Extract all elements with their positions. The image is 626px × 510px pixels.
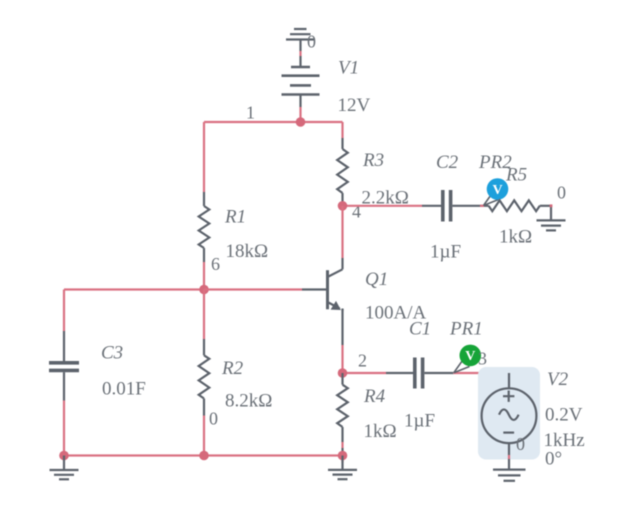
svg-text:1µF: 1µF	[430, 242, 461, 263]
connection tick (R4 ground stub)	[341, 459, 343, 463]
junction node 4	[338, 201, 348, 211]
junction bottom (R2)	[199, 451, 209, 461]
wire node 1 down to R1	[203, 122, 205, 192]
resistor R5	[489, 200, 551, 211]
wire C2 to R5	[452, 205, 488, 207]
svg-text:12V: 12V	[338, 95, 371, 116]
wire node 4 to C2	[343, 205, 442, 207]
svg-text:V2: V2	[547, 369, 569, 390]
wire bottom rail	[64, 454, 343, 456]
svg-text:3: 3	[478, 349, 487, 369]
svg-text:1kΩ: 1kΩ	[364, 421, 397, 442]
wire node 6 to R2	[203, 290, 205, 340]
wire node 4 to Q1 collector	[341, 206, 343, 269]
svg-text:0: 0	[557, 183, 566, 203]
wire ground to battery	[299, 51, 301, 67]
svg-text:PR1: PR1	[449, 319, 483, 340]
ground (bottom center)	[328, 456, 357, 480]
svg-text:R4: R4	[363, 386, 386, 407]
svg-text:6: 6	[211, 254, 220, 274]
svg-text:1µF: 1µF	[404, 411, 435, 432]
V2 selection highlight	[478, 367, 540, 460]
transistor Q1	[328, 269, 343, 311]
wire node 6 left	[64, 288, 204, 290]
wire V2 to ground	[508, 455, 510, 470]
capacitor C3	[49, 331, 79, 401]
resistor R3	[337, 138, 348, 206]
svg-text:C2: C2	[436, 152, 459, 173]
wire node 6 to Q1 base	[204, 288, 326, 290]
svg-text:0: 0	[209, 409, 218, 429]
wire top rail node 1	[204, 121, 343, 123]
wire C3 to bottom rail	[63, 401, 65, 456]
ground (right, net 0)	[537, 220, 566, 230]
svg-text:V: V	[465, 349, 475, 364]
svg-text:R1: R1	[224, 207, 246, 228]
svg-text:C3: C3	[101, 343, 123, 364]
wire C1 to V2	[424, 373, 509, 388]
probe PR2	[484, 178, 509, 205]
wire battery to node 1	[299, 95, 301, 123]
svg-text:R2: R2	[221, 358, 244, 379]
svg-text:0: 0	[516, 434, 525, 454]
svg-text:0: 0	[307, 32, 316, 52]
svg-text:V1: V1	[338, 58, 359, 79]
ground (top, net 0)	[286, 29, 315, 51]
svg-text:8.2kΩ: 8.2kΩ	[225, 391, 272, 412]
svg-text:Q1: Q1	[365, 269, 388, 290]
resistor R4	[337, 373, 348, 442]
svg-text:C1: C1	[409, 319, 431, 340]
wire R4 to bottom rail	[341, 442, 343, 456]
wire Q1 emitter to node 2	[341, 309, 343, 373]
junction bottom left (C3)	[59, 451, 69, 461]
wire node 1 to R3	[341, 122, 343, 138]
svg-text:0°: 0°	[545, 449, 562, 470]
svg-text:4: 4	[352, 202, 361, 222]
wire R1 to node 6	[203, 262, 205, 290]
junction node 6	[199, 285, 209, 295]
svg-text:2: 2	[358, 351, 367, 371]
svg-text:0.2V: 0.2V	[545, 405, 583, 426]
svg-text:V: V	[492, 183, 502, 198]
junction node 1	[296, 117, 306, 127]
svg-text:R3: R3	[362, 150, 384, 171]
svg-text:18kΩ: 18kΩ	[226, 241, 269, 262]
svg-text:R5: R5	[505, 165, 527, 186]
probe PR1	[454, 345, 481, 373]
ground (bottom left)	[50, 456, 79, 480]
wire R2 to bottom rail	[203, 416, 205, 456]
ground (below V2)	[493, 470, 526, 481]
resistor R2	[199, 339, 210, 416]
capacitor C2	[443, 190, 451, 222]
svg-text:1: 1	[246, 103, 255, 123]
svg-text:0.01F: 0.01F	[102, 379, 146, 400]
capacitor C1	[415, 358, 423, 389]
wire node 2 to C1	[343, 372, 414, 374]
battery V1	[282, 67, 320, 95]
wire R5 to right ground	[550, 206, 552, 221]
ac source V2	[482, 373, 537, 455]
svg-text:1kΩ: 1kΩ	[499, 227, 532, 248]
connection tick (R5 ground corner)	[550, 204, 553, 207]
resistor R1	[199, 192, 210, 262]
wire left rail down to C3	[63, 290, 65, 332]
junction node 2	[338, 368, 348, 378]
junction bottom (R4)	[338, 451, 348, 461]
